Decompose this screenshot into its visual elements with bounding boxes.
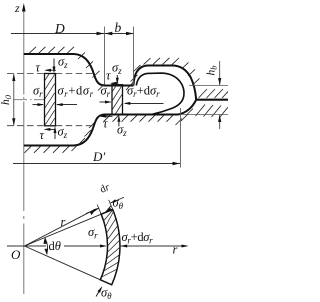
element 1 sigma_r + d sigma_r arrow (right) [56, 84, 94, 107]
svg-text:dr: dr [99, 182, 113, 196]
stress element 1 (cavity) [45, 74, 56, 126]
parting contact hatching [196, 89, 229, 118]
element 1 bottom tau arrow [40, 128, 55, 142]
svg-text:r: r [173, 243, 178, 257]
svg-text:σr: σr [33, 84, 43, 100]
sigma_theta upper arrow [105, 196, 124, 213]
element 2 sigma_r arrow (left) [100, 84, 112, 104]
element 2 top sigma_z arrow [112, 61, 122, 85]
element 1 sigma_r arrow (left) [33, 84, 45, 107]
svg-text:σr: σr [88, 225, 98, 241]
svg-text:h0: h0 [0, 94, 13, 105]
dimension hb [181, 61, 228, 129]
dr dimension [86, 182, 124, 215]
lower die hatching [25, 109, 194, 153]
svg-text:hb: hb [206, 66, 219, 76]
svg-text:r: r [61, 215, 66, 229]
polar element (annular sector) [100, 210, 120, 285]
svg-text:D: D [54, 21, 65, 36]
element 1 top tau arrow [36, 60, 57, 74]
sigma_r + d sigma_r arrow and r axis (right) [120, 230, 188, 257]
horizontal r line / sigma_r arrow [7, 225, 107, 248]
r dimension arrow [25, 209, 97, 246]
svg-text:O: O [11, 247, 21, 262]
svg-text:σz: σz [112, 61, 122, 77]
gutter wall hatching [131, 58, 200, 85]
element 2 top tau arrow [106, 69, 118, 85]
svg-text:σz: σz [117, 123, 127, 139]
svg-text:σr+dσr: σr+dσr [127, 84, 160, 100]
upper die hatching [29, 47, 133, 91]
element 2 bottom sigma_z arrow [117, 115, 127, 138]
element 1 top sigma_z arrow [53, 54, 69, 73]
d theta angle mark [43, 237, 60, 255]
svg-text:τ: τ [40, 128, 45, 142]
z axis [14, 1, 26, 294]
svg-text:z: z [14, 1, 20, 15]
parting line (dies contact, right of gutter) [196, 99, 228, 101]
stress element 2 (flash land) [112, 85, 123, 115]
svg-text:τ: τ [36, 60, 41, 74]
horizontal center line (dash-dot) [13, 99, 44, 101]
svg-text:σz: σz [58, 54, 68, 70]
svg-text:τ: τ [106, 69, 111, 83]
flash land top surface [104, 85, 134, 87]
svg-text:b: b [115, 20, 122, 35]
dimension h0 [0, 74, 15, 126]
element 2 bottom tau arrow [100, 115, 113, 131]
svg-text:dθ: dθ [49, 239, 61, 253]
dimension b [105, 20, 134, 85]
dimension D' [13, 108, 181, 168]
svg-text:τ: τ [103, 117, 108, 131]
element 1 bottom sigma_z arrow [54, 125, 68, 141]
dashed extension lines (flash plane through cavity) [7, 74, 93, 126]
svg-text:D′: D′ [92, 149, 105, 164]
svg-text:σr+dσr: σr+dσr [122, 230, 154, 246]
element 2 sigma_r + d sigma_r arrow (right) [124, 84, 164, 105]
svg-text:σz: σz [58, 125, 68, 141]
svg-text:σr+dσr: σr+dσr [58, 84, 94, 100]
dimension D [11, 21, 104, 36]
lower ray [25, 246, 101, 280]
sigma_theta lower arrow [96, 286, 112, 302]
lower die surface [24, 100, 196, 146]
upper ray [25, 214, 102, 246]
svg-text:σθ: σθ [101, 286, 112, 302]
flash metal bead in gutter [136, 73, 184, 114]
upper die surface [24, 54, 105, 86]
flash gutter wall (upper die) [134, 66, 197, 100]
